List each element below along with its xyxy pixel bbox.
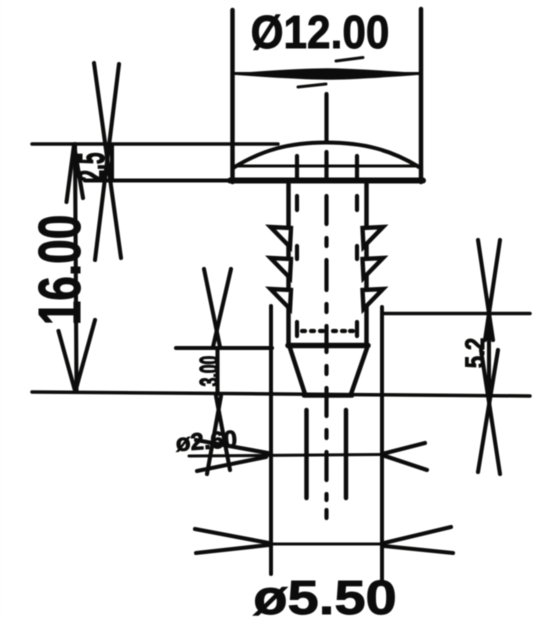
dim Ø5.50: right outside arrow — [384, 527, 451, 543]
svg-text:2.5: 2.5 — [71, 152, 113, 181]
dim Ø5.50: dimension line — [271, 543, 382, 546]
dim Ø5.50: left outside arrow — [195, 529, 269, 543]
head flange top seam line — [233, 165, 420, 168]
barb R2 — [363, 258, 384, 278]
dim Ø12.00: left extension line — [230, 10, 235, 182]
svg-text:Ø12.00: Ø12.00 — [251, 7, 390, 58]
barb L2 — [271, 258, 292, 278]
dotted hidden row inside box — [302, 329, 305, 333]
svg-text:5.2: 5.2 — [461, 338, 490, 368]
tip cone bottom edge — [304, 393, 352, 398]
dim 3.00: dimension line segment — [215, 348, 219, 394]
bottom shared extension line — [32, 392, 530, 396]
dim 2.5: tall outside-arrow X mark — [94, 63, 121, 258]
barb R3 — [363, 289, 384, 309]
dim Ø12.00: dimension line — [232, 72, 421, 75]
dim ø2.60: left arrow barbs — [196, 440, 268, 453]
dim 5.2: dimension line — [487, 313, 491, 394]
dim 2.5: top extension line (head top) — [32, 142, 278, 146]
barb L1 — [271, 227, 292, 247]
dim Ø12.00: right extension line — [419, 9, 424, 182]
shank right edge — [364, 184, 369, 346]
dim 5.2: bottom X arrow — [481, 350, 500, 474]
dim Ø12.00: stray barb tick lower — [298, 84, 326, 87]
barb L3 — [271, 289, 292, 309]
hidden line x=357 dashes — [355, 156, 359, 181]
dim ø2.60: right arrow barbs — [382, 443, 425, 454]
dim Ø12.00: lens-shaped double arrowheads — [232, 69, 421, 79]
barb R1 — [363, 227, 384, 247]
dim 3.00: top extension line — [176, 346, 272, 350]
dim 5.2: top extension line — [382, 312, 530, 316]
tip cone right slope — [351, 348, 367, 394]
shank left edge — [286, 184, 291, 346]
svg-text:ø5.50: ø5.50 — [253, 572, 397, 620]
dim 16.00: bottom arrowhead — [59, 331, 75, 389]
dim 5.2: top X arrow — [478, 240, 493, 340]
dim 3.00: lower V arrow — [207, 396, 221, 474]
dim 16.00: top arrowhead — [67, 145, 75, 202]
dim Ø12.00: stray barb tick upper — [336, 58, 363, 62]
tip cone left slope — [290, 348, 305, 394]
svg-text:16.00: 16.00 — [27, 215, 94, 326]
head dome top curve — [233, 143, 419, 169]
dim Ø5.50: left extension line — [269, 306, 273, 574]
dim 3.00: upper X arrow — [204, 269, 220, 347]
svg-text:3.00: 3.00 — [194, 356, 224, 387]
shank box bottom thick band — [288, 343, 368, 349]
dim Ø5.50: right extension line — [380, 307, 384, 580]
dim 16.00: dimension line — [75, 144, 77, 390]
dim 2.5: bottom extension line (flange bottom) — [85, 178, 234, 182]
hidden hole line left below tip — [304, 410, 309, 498]
dim 2.5: dimension line stub — [110, 145, 114, 180]
hidden line x=297 dashes — [295, 156, 299, 181]
hidden hole line right below tip — [344, 410, 349, 498]
left barbs (white filled triangles) — [271, 227, 384, 309]
dim ø2.60: leader shaft — [189, 455, 381, 457]
head flange bottom thick line — [230, 178, 423, 184]
svg-text:ø2.60: ø2.60 — [175, 426, 238, 457]
center line (long-short dashes) — [324, 94, 328, 518]
